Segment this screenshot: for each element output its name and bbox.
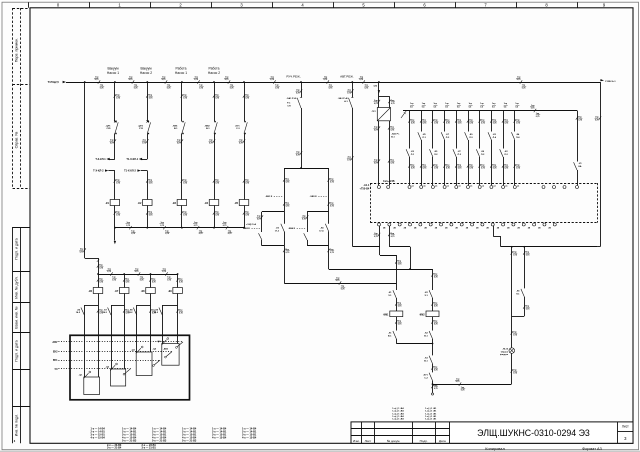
svg-text:0,75: 0,75 — [131, 233, 135, 235]
wire mark column 2 mid — [146, 139, 148, 142]
breaker -КМ2 — [214, 122, 217, 133]
wire group1 down — [284, 246, 286, 283]
right branch wire col 1 — [98, 305, 100, 377]
svg-text:1-х(-) 1 -В1: 1-х(-) 1 -В1 — [425, 408, 437, 410]
svg-text:0,75: 0,75 — [446, 168, 450, 170]
svg-text:0,75: 0,75 — [116, 215, 120, 217]
wire mark column 2 lower — [146, 179, 148, 182]
supply arrow — [63, 81, 66, 83]
bus wire marks — [98, 80, 100, 83]
svg-text:-G1: -G1 — [371, 109, 376, 113]
wire mark column 3 lower — [181, 179, 183, 182]
wire column 4 upper — [214, 82, 216, 122]
svg-text:-К2: -К2 — [138, 202, 142, 205]
svg-text:0,75: 0,75 — [179, 282, 183, 284]
K6 rail wire marks — [110, 272, 112, 275]
wire column 3 foot — [181, 206, 183, 228]
svg-text:Т1-Х-КЛ-2: Т1-Х-КЛ-2 — [124, 170, 136, 173]
wire column 1 mid — [114, 134, 116, 160]
contact -К2з — [429, 290, 432, 298]
contactor coil -КМ2 — [426, 311, 439, 317]
button link -SB3 Е — [318, 196, 327, 198]
matrix column 7 wire mark lower — [479, 164, 481, 167]
wire group 1 left branch — [261, 212, 263, 232]
matrix column 7 wire — [479, 111, 481, 149]
svg-text:1-х(-) 1 -В1: 1-х(-) 1 -В1 — [425, 411, 437, 413]
wire mark above coil -К6 — [97, 278, 99, 281]
wire group1 to KM1 — [284, 283, 396, 285]
wire mark lamp pre — [511, 331, 513, 334]
svg-text:-КУ1: -КУ1 — [423, 374, 428, 376]
svg-text:Обрыв: Обрыв — [501, 350, 509, 353]
svg-text:Т-Х-КЛ-2: Т-Х-КЛ-2 — [93, 170, 104, 173]
wire below coil -К8 — [150, 294, 152, 306]
matrix column 2 wire mark — [420, 119, 422, 122]
contact -К2 В-1 — [429, 331, 432, 339]
svg-text:0,75: 0,75 — [461, 390, 465, 392]
matrix rail breaker — [401, 111, 407, 119]
wire mark column 5 mid — [243, 139, 245, 142]
svg-text:1-х(-) 1 -В4: 1-х(-) 1 -В4 — [392, 407, 404, 410]
wire bus right drop — [600, 82, 602, 247]
incoming wire T-X-KL-2 column 2 — [141, 170, 148, 172]
wire group2 down — [328, 246, 330, 269]
svg-text:Насос 2: Насос 2 — [140, 71, 152, 75]
wire mark group 2 feed — [328, 178, 330, 181]
wire mark KM1 top — [395, 260, 397, 263]
svg-text:0,5: 0,5 — [480, 106, 483, 108]
wire 24V- drop — [389, 226, 391, 247]
svg-text:-SB3 Е: -SB3 Е — [310, 196, 318, 198]
relay coil -К2 — [143, 200, 153, 206]
matrix right wire mark — [576, 116, 578, 119]
wire mark on 283 rail — [339, 281, 341, 284]
wire mark right branch col 1 — [97, 309, 99, 312]
svg-text:-КМ2: -КМ2 — [419, 314, 425, 317]
svg-text:0,75: 0,75 — [423, 168, 427, 170]
svg-text:0,75: 0,75 — [505, 123, 509, 125]
svg-text:-КМ1: -КМ1 — [383, 314, 389, 317]
matrix column 6 wire mark lower — [467, 164, 469, 167]
incoming wire T-X-KL-2 column 1 — [108, 170, 115, 172]
wire G1 feed — [378, 82, 380, 108]
svg-text:-КУ1: -КУ1 — [235, 125, 240, 127]
wire drop to coil -К9 — [177, 274, 179, 288]
matrix column 10 wire mark lower — [514, 164, 516, 167]
svg-text:Сеть+24В: Сеть+24В — [383, 180, 395, 183]
wire mark group 2 out — [328, 249, 330, 252]
svg-text:0,75: 0,75 — [411, 168, 415, 170]
svg-text:Т-Х-КЛ-1: Т-Х-КЛ-1 — [95, 158, 106, 161]
wire mark column 4 mid — [213, 139, 215, 142]
matrix column 3 wire mark — [432, 119, 434, 122]
svg-text:0,75: 0,75 — [536, 116, 540, 118]
wire mark lamp post — [511, 369, 513, 372]
auxiliary contact col 2 — [108, 308, 111, 316]
svg-text:Лист: Лист — [365, 439, 372, 443]
branch tie col 2 — [111, 305, 124, 307]
wire G1 output right — [389, 121, 391, 186]
svg-text:0,75: 0,75 — [245, 183, 249, 185]
junction K6 rail col 1 — [97, 273, 99, 275]
svg-text:0,75: 0,75 — [374, 163, 378, 165]
wire mark right branch col 3 — [149, 309, 151, 312]
svg-text:-К5: -К5 — [234, 202, 238, 205]
svg-text:Перв. примен.: Перв. примен. — [15, 38, 19, 63]
matrix right column contact -К1 — [574, 162, 577, 170]
wire column 3 lower — [181, 134, 183, 200]
device A1.1 dashed outline — [370, 183, 597, 185]
bottom rail wire mark — [459, 382, 461, 385]
wire mark column 1 lower — [114, 179, 116, 182]
svg-text:0,75: 0,75 — [199, 88, 203, 90]
svg-text:0,5: 0,5 — [422, 106, 425, 108]
matrix contact -К5 lower — [430, 149, 433, 157]
svg-text:0,75: 0,75 — [516, 123, 520, 125]
svg-text:-SB4 Е: -SB4 Е — [288, 227, 296, 230]
svg-text:0,75: 0,75 — [434, 370, 438, 372]
wire bottom rail to lamp — [433, 384, 512, 386]
button contact -SB2 Е — [259, 233, 262, 240]
svg-text:Копировал: Копировал — [485, 446, 505, 451]
wire mark KM2 mid — [431, 302, 433, 305]
svg-text:0,75: 0,75 — [149, 215, 153, 217]
actuator block 3 — [136, 352, 152, 376]
ground terminal — [431, 393, 433, 395]
outgoing wire T-X-KL-1 column 1 — [108, 159, 115, 161]
svg-text:0,75: 0,75 — [398, 324, 402, 326]
wire column 4 foot — [214, 206, 216, 228]
wire mark SA2 top — [351, 89, 353, 92]
wire mark column 4 foot — [213, 211, 215, 214]
matrix column 9 wire mark lower — [502, 164, 504, 167]
svg-text:0,75: 0,75 — [179, 313, 183, 315]
contact on line У0 — [125, 369, 131, 374]
svg-text:1-х(-) 1 -В4: 1-х(-) 1 -В4 — [392, 418, 404, 421]
title block grid — [361, 422, 363, 443]
contact on line ВУ2 — [166, 352, 172, 357]
wire matrix right column — [577, 111, 579, 162]
svg-text:0,75: 0,75 — [423, 123, 427, 125]
wire mark column 2 foot — [146, 211, 148, 214]
wire mark below KM1 — [395, 320, 397, 323]
svg-text:НА: НА — [578, 165, 582, 168]
wire below KM1 — [396, 317, 398, 331]
control line ВУ1 — [59, 360, 161, 362]
wire column 2 foot — [147, 206, 149, 228]
svg-text:0,75: 0,75 — [458, 123, 462, 125]
outgoing wire T-X-KL-1 column 2 — [141, 159, 148, 161]
svg-text:0,75: 0,75 — [135, 271, 139, 273]
wire mark column 1 mid — [114, 139, 116, 142]
svg-text:0,5: 0,5 — [445, 106, 448, 108]
svg-text:АВУ: АВУ — [52, 341, 58, 344]
wire mark below KM2 — [431, 320, 433, 323]
wire lamp feed rail — [501, 246, 598, 248]
contact -К1з — [393, 290, 396, 298]
svg-text:Лист: Лист — [622, 424, 629, 428]
svg-text:-К7: -К7 — [115, 290, 119, 293]
wire SA2 column — [352, 82, 354, 98]
wire drop to coil -К6 — [98, 274, 100, 288]
junction column 2 foot — [146, 227, 148, 229]
svg-text:0,75: 0,75 — [165, 233, 169, 235]
relay coil -К8 — [146, 288, 156, 294]
svg-text:+ЭЦ1 Гн8: +ЭЦ1 Гн8 — [246, 224, 257, 226]
wire mark column 5 — [243, 94, 245, 97]
svg-text:0,75: 0,75 — [270, 79, 274, 81]
auxiliary contact col 3 — [133, 308, 136, 316]
svg-text:-SA1 Р-А\: -SA1 Р-А\ — [286, 97, 296, 100]
svg-text:Подп. и дата: Подп. и дата — [15, 340, 19, 361]
matrix column 8 wire — [491, 111, 493, 132]
svg-text:0,75: 0,75 — [493, 123, 497, 125]
junction K6 rail col 3 — [150, 273, 152, 275]
svg-text:-HL10: -HL10 — [502, 349, 509, 351]
wire mark KV bottom — [431, 385, 433, 388]
svg-text:ВУ1: ВУ1 — [53, 359, 58, 362]
return bus wire marks — [129, 226, 131, 229]
junction column 4 foot — [213, 227, 215, 229]
wire matrix rail — [403, 110, 577, 112]
svg-text:0,75: 0,75 — [296, 155, 300, 157]
svg-text:-КМ1: -КМ1 — [172, 125, 178, 127]
wire mark group 2 left — [306, 215, 308, 218]
matrix column 3 wire mark lower — [432, 164, 434, 167]
svg-text:0,75: 0,75 — [126, 282, 130, 284]
svg-text:5-х — 21-В3: 5-х — 21-В3 — [152, 439, 167, 442]
svg-text:Подп.: Подп. — [420, 439, 428, 443]
matrix column 5 wire — [456, 111, 458, 149]
svg-text:0,75: 0,75 — [116, 98, 120, 100]
svg-text:0,75: 0,75 — [513, 335, 517, 337]
matrix column 5 wire mark lower — [455, 164, 457, 167]
svg-text:0,75: 0,75 — [330, 182, 334, 184]
svg-text:РУЧ.РЕЖ,: РУЧ.РЕЖ, — [286, 74, 300, 78]
svg-text:0,75: 0,75 — [239, 143, 243, 145]
svg-text:0,75: 0,75 — [481, 168, 485, 170]
A1.1 output terminals — [378, 223, 381, 226]
svg-text:Вакуум: Вакуум — [140, 67, 152, 71]
wire mark above coil -К7 — [123, 278, 125, 281]
junction column 3 foot — [181, 227, 183, 229]
svg-text:0,75: 0,75 — [149, 183, 153, 185]
wire mark bus right drop — [599, 116, 601, 119]
feeder arrow mark — [97, 259, 99, 262]
svg-text:0,75: 0,75 — [215, 183, 219, 185]
breaker -QF1 — [115, 122, 118, 133]
wire column 4 lower — [214, 134, 216, 200]
matrix column 7 wire mark — [479, 119, 481, 122]
svg-text:0,75: 0,75 — [257, 219, 261, 221]
wire column 1 upper — [114, 82, 116, 122]
limit switch Q1 — [84, 373, 89, 378]
svg-text:0,75: 0,75 — [228, 233, 232, 235]
tie group 2 bottom — [307, 245, 329, 247]
svg-text:-К3: -К3 — [172, 202, 176, 205]
lamp branch tie — [512, 316, 525, 318]
svg-text:5-х — 21-В3: 5-х — 21-В3 — [122, 439, 137, 442]
junction K6 rail col 4 — [177, 273, 179, 275]
svg-text:0,75: 0,75 — [517, 79, 521, 81]
svg-text:-К8: -К8 — [141, 290, 145, 293]
wire lamp column left — [511, 247, 513, 348]
right branch wire col 3 — [150, 305, 152, 352]
svg-text:№ докум.: № докум. — [387, 439, 401, 443]
wire SA2 to KM1 route — [352, 246, 380, 248]
svg-text:0,75: 0,75 — [126, 225, 130, 227]
contact -К3 В-1 — [429, 356, 432, 364]
svg-text:-АВ2: -АВ2 — [163, 348, 169, 351]
breaker -КМ1 — [182, 122, 185, 133]
A1.1 input terminals — [377, 186, 380, 189]
svg-text:-КМ2: -КМ2 — [204, 125, 210, 127]
svg-text:0,75: 0,75 — [434, 277, 438, 279]
relay coil -К9 — [173, 288, 183, 294]
svg-text:Вакуум: Вакуум — [107, 67, 119, 71]
svg-text:0,75: 0,75 — [183, 98, 187, 100]
wire group 2 main mid — [328, 212, 330, 224]
svg-text:0,75: 0,75 — [434, 324, 438, 326]
wire group2 to KM2 — [329, 269, 433, 271]
power supply unit G1 — [377, 108, 390, 121]
svg-text:0,75: 0,75 — [134, 88, 138, 90]
wire 220V bus — [66, 82, 600, 84]
svg-text:0,75: 0,75 — [531, 108, 535, 110]
left branch wire col 1 — [84, 305, 86, 377]
wire group 1 main mid — [284, 212, 286, 224]
svg-text:0,75: 0,75 — [80, 252, 84, 254]
wire mark lamp column — [511, 251, 513, 254]
button link -SB1 Е — [273, 196, 282, 198]
wire mark 24V+ — [378, 233, 380, 236]
svg-text:0,75: 0,75 — [398, 306, 402, 308]
svg-text:-К9: -К9 — [168, 290, 172, 293]
junction column 1 foot — [114, 227, 116, 229]
device enclosure box — [70, 335, 190, 400]
svg-text:Подп. и дата: Подп. и дата — [15, 238, 19, 259]
matrix column 9 wire — [503, 111, 505, 149]
svg-text:0,75: 0,75 — [365, 88, 369, 90]
contact -К1 В-1 — [393, 331, 396, 339]
matrix column 10 wire — [514, 111, 516, 132]
wire column 3 upper — [181, 82, 183, 122]
wire drop to coil -К8 — [150, 274, 152, 288]
title block frame — [351, 422, 633, 443]
svg-text:0,75: 0,75 — [481, 123, 485, 125]
svg-text:0,75: 0,75 — [95, 79, 99, 81]
matrix column 10 wire mark — [514, 119, 516, 122]
wire mark above coil -К9 — [176, 278, 178, 281]
wire lamp feed drop — [493, 226, 495, 236]
svg-text:Справ. №: Справ. № — [15, 132, 19, 149]
svg-text:1-х(-) 1 -В1: 1-х(-) 1 -В1 — [425, 416, 437, 418]
breaker -КУ1 — [244, 122, 247, 133]
svg-text:4-х — 15-В4: 4-х — 15-В4 — [91, 436, 106, 439]
relay coil -К3 — [177, 200, 187, 206]
svg-text:0,75: 0,75 — [434, 123, 438, 125]
matrix column 6 wire mark — [467, 119, 469, 122]
svg-text:Насос 1: Насос 1 — [175, 71, 187, 75]
wire marks G1 outputs — [378, 126, 380, 129]
svg-text:0,75: 0,75 — [446, 123, 450, 125]
actuator block 4 — [162, 344, 179, 366]
wire column 5 lower — [244, 134, 246, 200]
svg-text:Изм.: Изм. — [353, 439, 360, 443]
wire column 1 foot — [114, 206, 116, 228]
svg-text:С12В-1/+1: С12В-1/+1 — [605, 81, 616, 83]
contact -К3 group 1 — [281, 224, 284, 232]
contact on line АВУ — [177, 342, 183, 347]
wire drop to coil -К7 — [124, 274, 126, 288]
wire mark right branch col 2 — [123, 309, 125, 312]
wire KM1 to KM2 tie — [396, 343, 432, 345]
svg-text:0,75: 0,75 — [215, 215, 219, 217]
wire below coil -К9 — [177, 294, 179, 306]
matrix column 6 wire — [468, 111, 470, 132]
svg-text:0,75: 0,75 — [152, 282, 156, 284]
svg-text:ВУ2: ВУ2 — [53, 351, 58, 354]
svg-text:0,75: 0,75 — [107, 271, 111, 273]
wire below KM2 — [432, 317, 434, 331]
wire column 1 lower — [114, 171, 116, 200]
svg-text:0,5: 0,5 — [469, 106, 472, 108]
wire column 5 foot — [244, 206, 246, 228]
wire mark column 3 mid — [181, 139, 183, 142]
svg-text:0,75: 0,75 — [149, 98, 153, 100]
matrix contact -К7 upper — [441, 132, 444, 140]
svg-text:0,75: 0,75 — [183, 183, 187, 185]
matrix column 2 wire — [421, 111, 423, 132]
wire mark lamp right — [523, 251, 525, 254]
auxiliary contact col 4 — [159, 308, 162, 316]
tie group 2 top — [307, 211, 329, 213]
svg-text:0,75: 0,75 — [275, 88, 279, 90]
selector switch SA1 hand — [297, 98, 301, 108]
wire column 2 mid — [147, 134, 149, 160]
svg-text:Насос 1: Насос 1 — [107, 71, 119, 75]
matrix column 1 wire — [409, 111, 411, 149]
svg-text:-SA1 Р-А\: -SA1 Р-А\ — [338, 97, 348, 100]
wire group 2 left branch — [307, 212, 309, 232]
wire mark column 4 lower — [213, 179, 215, 182]
wire mark right branch col 4 — [176, 309, 178, 312]
junction K6 rail col 2 — [123, 273, 125, 275]
svg-text:0,75: 0,75 — [526, 309, 530, 311]
svg-text:0,75: 0,75 — [469, 168, 473, 170]
svg-text:0,75: 0,75 — [513, 373, 517, 375]
junction bottom rail — [432, 383, 434, 385]
matrix contact -К7 lower — [453, 149, 456, 157]
junction 269/410 — [409, 268, 411, 270]
wire mark lamp right lower — [523, 305, 525, 308]
branch tie col 4 — [162, 305, 177, 307]
svg-text:0,75: 0,75 — [129, 79, 133, 81]
button contact -SB4 Е — [304, 233, 307, 240]
matrix contact -К5 upper — [418, 132, 421, 140]
svg-text:4-х — 15-В4: 4-х — 15-В4 — [242, 436, 257, 439]
left branch wire col 2 — [111, 305, 113, 369]
svg-text:0,75: 0,75 — [391, 130, 395, 132]
svg-text:0,75: 0,75 — [391, 236, 395, 238]
svg-text:1-х(-) 1 -В1: 1-х(-) 1 -В1 — [425, 419, 437, 421]
wire column 2 upper — [147, 82, 149, 122]
matrix column 4 wire — [444, 111, 446, 132]
svg-text:-А1.1: -А1.1 — [363, 184, 370, 187]
svg-text:5-х — 21-В3: 5-х — 21-В3 — [182, 439, 197, 442]
svg-text:Дата: Дата — [439, 439, 446, 443]
svg-text:0,75: 0,75 — [330, 206, 334, 208]
